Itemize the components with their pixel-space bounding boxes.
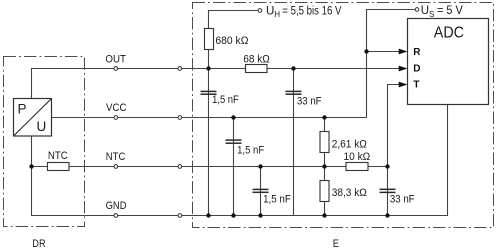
- terminal NTC b: [178, 165, 182, 169]
- wire divider chain branch: [324, 118, 326, 216]
- resistor NTC: [48, 150, 70, 171]
- node GND/33nF: [385, 213, 389, 217]
- node VCC/C2: [231, 115, 235, 119]
- capacitor C3 1,5 nF: [253, 189, 292, 205]
- svg-text:T: T: [413, 80, 419, 91]
- terminal VCC a: [114, 116, 118, 120]
- terminal U_H: [258, 9, 262, 13]
- wire capacitor C1 branch: [208, 69, 210, 216]
- capacitor C2 1,5 nF: [226, 140, 265, 156]
- svg-text:10 kΩ: 10 kΩ: [344, 151, 371, 163]
- terminal GND a: [114, 214, 118, 218]
- node GND/C2: [231, 213, 235, 217]
- svg-text:OUT: OUT: [105, 54, 126, 66]
- wire R input from 5V rail: [367, 51, 401, 53]
- node NTC/C3: [258, 164, 262, 168]
- net labels: [105, 54, 126, 213]
- resistor 68 kOhm: [243, 53, 269, 72]
- terminal U_S: [415, 8, 419, 12]
- node 10k/T/33nF: [385, 164, 389, 168]
- node sensor NTC tap: [29, 164, 33, 168]
- node GND/C3: [258, 213, 262, 217]
- node GND/divider: [322, 213, 326, 217]
- svg-text:D: D: [413, 64, 420, 75]
- svg-text:= 5 V: = 5 V: [437, 5, 463, 17]
- resistor 38,3 kOhm: [320, 181, 367, 202]
- svg-text:U: U: [266, 5, 274, 17]
- wire OUT net: sensor top to ADC D input: [32, 69, 401, 99]
- wire capacitor C2 branch: [233, 118, 235, 216]
- node GND/C1: [206, 213, 210, 217]
- svg-text:NTC: NTC: [48, 150, 68, 162]
- svg-text:680 kΩ: 680 kΩ: [215, 35, 248, 47]
- svg-text:U: U: [421, 5, 429, 17]
- resistor 10 kOhm: [344, 151, 371, 170]
- svg-text:2,61 kΩ: 2,61 kΩ: [332, 138, 367, 150]
- svg-text:= 5,5 bis 16 V: = 5,5 bis 16 V: [282, 5, 341, 17]
- capacitor C1 1,5 nF: [201, 91, 240, 106]
- resistor 2,61 kOhm: [320, 132, 367, 153]
- svg-text:ADC: ADC: [434, 24, 464, 41]
- capacitor C5 33 nF (bottom): [380, 189, 415, 205]
- node divider mid: [322, 164, 326, 168]
- terminal OUT b: [178, 67, 182, 71]
- capacitor C4 33 nF (top): [286, 91, 322, 107]
- DR enclosure dash-dot frame: [4, 57, 85, 227]
- pin arrow into T: [399, 82, 408, 88]
- pin arrow into R: [399, 49, 408, 55]
- wire GND net: sensor drop, bottom rail, up to ADC bottom: [32, 105, 448, 216]
- label U_S supply: [421, 5, 463, 19]
- terminal NTC a: [114, 165, 118, 169]
- terminal OUT a: [114, 67, 118, 71]
- wire NTC net: sensor junction to 10k right junction: [32, 166, 388, 168]
- E enclosure dash-dot frame: [193, 3, 494, 228]
- wire VCC net: sensor right to U_S drop: [52, 10, 415, 118]
- svg-text:1,5 nF: 1,5 nF: [212, 94, 239, 106]
- node OUT/33nF: [291, 66, 295, 70]
- wire T input to 10k/33nF junction: [388, 85, 401, 216]
- svg-text:NTC: NTC: [106, 151, 126, 163]
- svg-text:DR: DR: [32, 238, 45, 249]
- svg-text:68 kΩ: 68 kΩ: [243, 53, 269, 65]
- terminal GND b: [178, 214, 182, 218]
- svg-text:VCC: VCC: [106, 102, 127, 114]
- wire U_H branch: 680k top to terminal: [209, 11, 258, 69]
- ADC block U1: [408, 19, 489, 105]
- terminal VCC b: [178, 116, 182, 120]
- svg-text:R: R: [413, 47, 421, 58]
- svg-text:U: U: [37, 119, 47, 134]
- svg-text:1,5 nF: 1,5 nF: [237, 144, 264, 156]
- wire capacitor C4 branch: [293, 69, 295, 216]
- svg-text:GND: GND: [106, 200, 127, 212]
- svg-text:33 nF: 33 nF: [297, 96, 322, 108]
- svg-text:P: P: [18, 102, 27, 117]
- pin arrow into D: [399, 66, 408, 72]
- svg-text:S: S: [429, 10, 434, 19]
- node R tap on 5V rail: [364, 49, 368, 53]
- resistor 680 kOhm: [205, 29, 249, 50]
- svg-text:1,5 nF: 1,5 nF: [263, 194, 291, 206]
- node VCC/divider: [322, 115, 326, 119]
- node OUT/680k: [206, 66, 210, 70]
- sensor cell P/U block: [14, 99, 52, 137]
- connector circles: [114, 8, 419, 218]
- label U_H supply: [266, 5, 342, 19]
- svg-text:E: E: [333, 238, 339, 249]
- wire capacitor C3 branch: [260, 167, 262, 216]
- svg-text:33 nF: 33 nF: [390, 194, 415, 206]
- svg-text:H: H: [274, 10, 280, 19]
- svg-text:38,3 kΩ: 38,3 kΩ: [332, 187, 367, 199]
